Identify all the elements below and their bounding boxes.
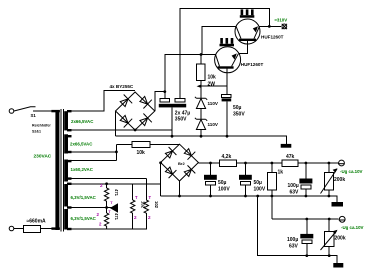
wire line A winding1 bottom (70, 129, 172, 131)
svg-text:350V: 350V (233, 111, 245, 117)
wire riser bridge1 left to B rail (115, 112, 117, 137)
svg-text:350V: 350V (175, 116, 187, 122)
resistor R8 47k (282, 154, 298, 166)
terminal HV out (282, 24, 287, 29)
ground bias2 (333, 263, 343, 268)
svg-text:230VAC: 230VAC (34, 153, 52, 159)
svg-text:102: 102 (154, 201, 159, 209)
svg-text:100V: 100V (254, 186, 266, 192)
svg-text:110V: 110V (208, 101, 219, 106)
svg-text:471: 471 (114, 189, 119, 197)
terminal J1 mains top (9, 109, 14, 114)
svg-text:63V: 63V (290, 189, 300, 195)
wire line B (HV minus rail) (116, 136, 287, 144)
svg-text:Br2: Br2 (178, 161, 185, 166)
transformer TR1 primary winding (55, 111, 59, 230)
node R1 bottom / reference arrow (197, 84, 202, 88)
resistor R5 102 (131, 184, 146, 229)
svg-text:-Ug ca.10V: -Ug ca.10V (341, 225, 364, 230)
capacitor C5 100u 63V (288, 162, 313, 198)
resistor R6 102 (144, 179, 159, 230)
node zener bottom on line B (200, 135, 203, 138)
wire Q1 emitter to output (259, 25, 281, 27)
svg-text:50µ: 50µ (218, 180, 227, 186)
svg-text:4x BY255C: 4x BY255C (110, 84, 134, 89)
transistor Q1 HUF1260T (235, 19, 284, 44)
svg-text:2x66,5VAC: 2x66,5VAC (71, 119, 94, 124)
capacitor C4 50u 100V (239, 162, 266, 198)
terminal Ug2 out (339, 216, 345, 222)
svg-text:4,2k: 4,2k (222, 154, 232, 160)
svg-text:2W: 2W (208, 82, 216, 88)
svg-text:Reichhöfer: Reichhöfer (32, 124, 51, 128)
wire heater bottom rail (70, 228, 147, 230)
node C2 bottom on line B (226, 135, 229, 138)
wire Q2 emitter to Q1 base (238, 41, 247, 54)
fuse F1 660mA (24, 219, 47, 233)
wire terminal to fuse (14, 228, 24, 230)
svg-text:110V: 110V (208, 122, 219, 127)
svg-text:1x60,2VAC: 1x60,2VAC (71, 167, 94, 172)
svg-text:S2&1: S2&1 (32, 130, 41, 134)
svg-text:T: T (135, 195, 138, 200)
node X 10k top (200, 53, 203, 56)
wire rail2 top (272, 218, 339, 220)
winding tabs (51, 110, 60, 112)
wire riser lineA to lineB (171, 130, 173, 136)
resistor R3 heater pot upper (104, 182, 119, 201)
switch label Reichhöfer S2&1 (32, 124, 51, 134)
svg-text:200k: 200k (335, 236, 346, 242)
node top rail drop (268, 25, 271, 28)
terminal J2 mains bottom (9, 226, 14, 231)
svg-text:≈310V: ≈310V (275, 18, 288, 23)
zener D2 110V (195, 109, 219, 137)
wire winding3 top tap (70, 160, 116, 162)
resistor R1 10k 2W (197, 55, 217, 88)
svg-text:HUF1260T: HUF1260T (241, 62, 264, 67)
svg-text:2x66,5VAC: 2x66,5VAC (70, 142, 93, 147)
svg-text:6,3V/1,5VAC: 6,3V/1,5VAC (71, 216, 97, 221)
bridge rectifier B1 (116, 92, 155, 130)
node capA top riser (163, 90, 166, 93)
terminal Ug1 out (338, 160, 344, 166)
svg-text:10k: 10k (137, 150, 146, 156)
heatsink Q2 (220, 38, 235, 46)
svg-text:63V: 63V (289, 243, 299, 249)
heatsink Q1 (240, 9, 255, 17)
svg-text:50µ: 50µ (254, 180, 263, 186)
wire bridge1 plus riser (155, 92, 165, 111)
wire Q1 collector feed (202, 26, 236, 54)
wire bridge2 bottom riser (179, 181, 181, 196)
transistor Q2 HUF1260T (215, 47, 264, 86)
node w2/w3 riser (115, 151, 118, 154)
svg-text:47k: 47k (286, 154, 295, 160)
trimmer P2 200k (321, 218, 346, 257)
svg-text:6,3V/1,5VAC: 6,3V/1,5VAC (71, 195, 97, 200)
svg-text:T: T (149, 195, 152, 200)
svg-text:100µ: 100µ (288, 183, 299, 189)
svg-text:1k: 1k (278, 170, 284, 176)
svg-text:100µ: 100µ (287, 237, 298, 243)
svg-text:≈660mA: ≈660mA (27, 219, 47, 225)
svg-text:2: 2 (100, 183, 103, 188)
wire bias common y196 (160, 196, 337, 202)
wire winding3 bottom tap (70, 178, 146, 180)
svg-text:HUF1260T: HUF1260T (261, 34, 284, 39)
wiper wire winding4/5 mid tap (70, 201, 118, 214)
bridge rectifier Br2 (161, 144, 199, 181)
wire bridge2 left riser (160, 163, 162, 197)
svg-text:2: 2 (148, 215, 151, 220)
wire fuse to primary (41, 228, 56, 230)
switch S1 (14, 107, 55, 118)
wire heater top rail (70, 183, 160, 185)
svg-text:-Ug ca.10V: -Ug ca.10V (340, 169, 363, 174)
ground HV (281, 144, 292, 148)
svg-text:100V: 100V (218, 186, 230, 192)
capacitor C3 50u 100V (204, 162, 230, 198)
node bridge1 bottom (134, 129, 137, 132)
ground bias1 (332, 202, 344, 207)
wire capB riser to top rail (180, 9, 269, 99)
svg-text:200k: 200k (334, 177, 345, 183)
capacitor C2 50u 350V (222, 86, 246, 136)
zener D1 110V (195, 86, 219, 109)
svg-text:2: 2 (134, 215, 137, 220)
trimmer P1 200k (321, 162, 346, 198)
capacitor C6 100u 63V (287, 218, 313, 257)
svg-text:S1: S1 (31, 113, 37, 118)
svg-text:10k: 10k (208, 75, 217, 81)
resistor R9 1k vertical (267, 162, 283, 219)
wire capA riser / node X line (165, 55, 216, 99)
transformer secondary winding bars (64, 111, 68, 130)
wire reference node line (201, 85, 227, 87)
wire winding1 top to bridge (70, 91, 135, 111)
resistor R7 4,2k (219, 154, 236, 166)
capacitor C1a C1b 2x47u 350V (159, 99, 191, 123)
wire riser y196 to rail2 bottom (256, 195, 259, 198)
transformer core (61, 109, 63, 232)
resistor R4 heater pot lower (104, 201, 119, 229)
svg-text:50µ: 50µ (233, 105, 242, 111)
wire rail1 (198, 162, 338, 164)
resistor R2 10k (116, 141, 179, 156)
wire caps common bottom to line B (171, 107, 173, 136)
wire winding2 bottom tap (70, 151, 116, 153)
svg-text:471: 471 (114, 213, 119, 221)
